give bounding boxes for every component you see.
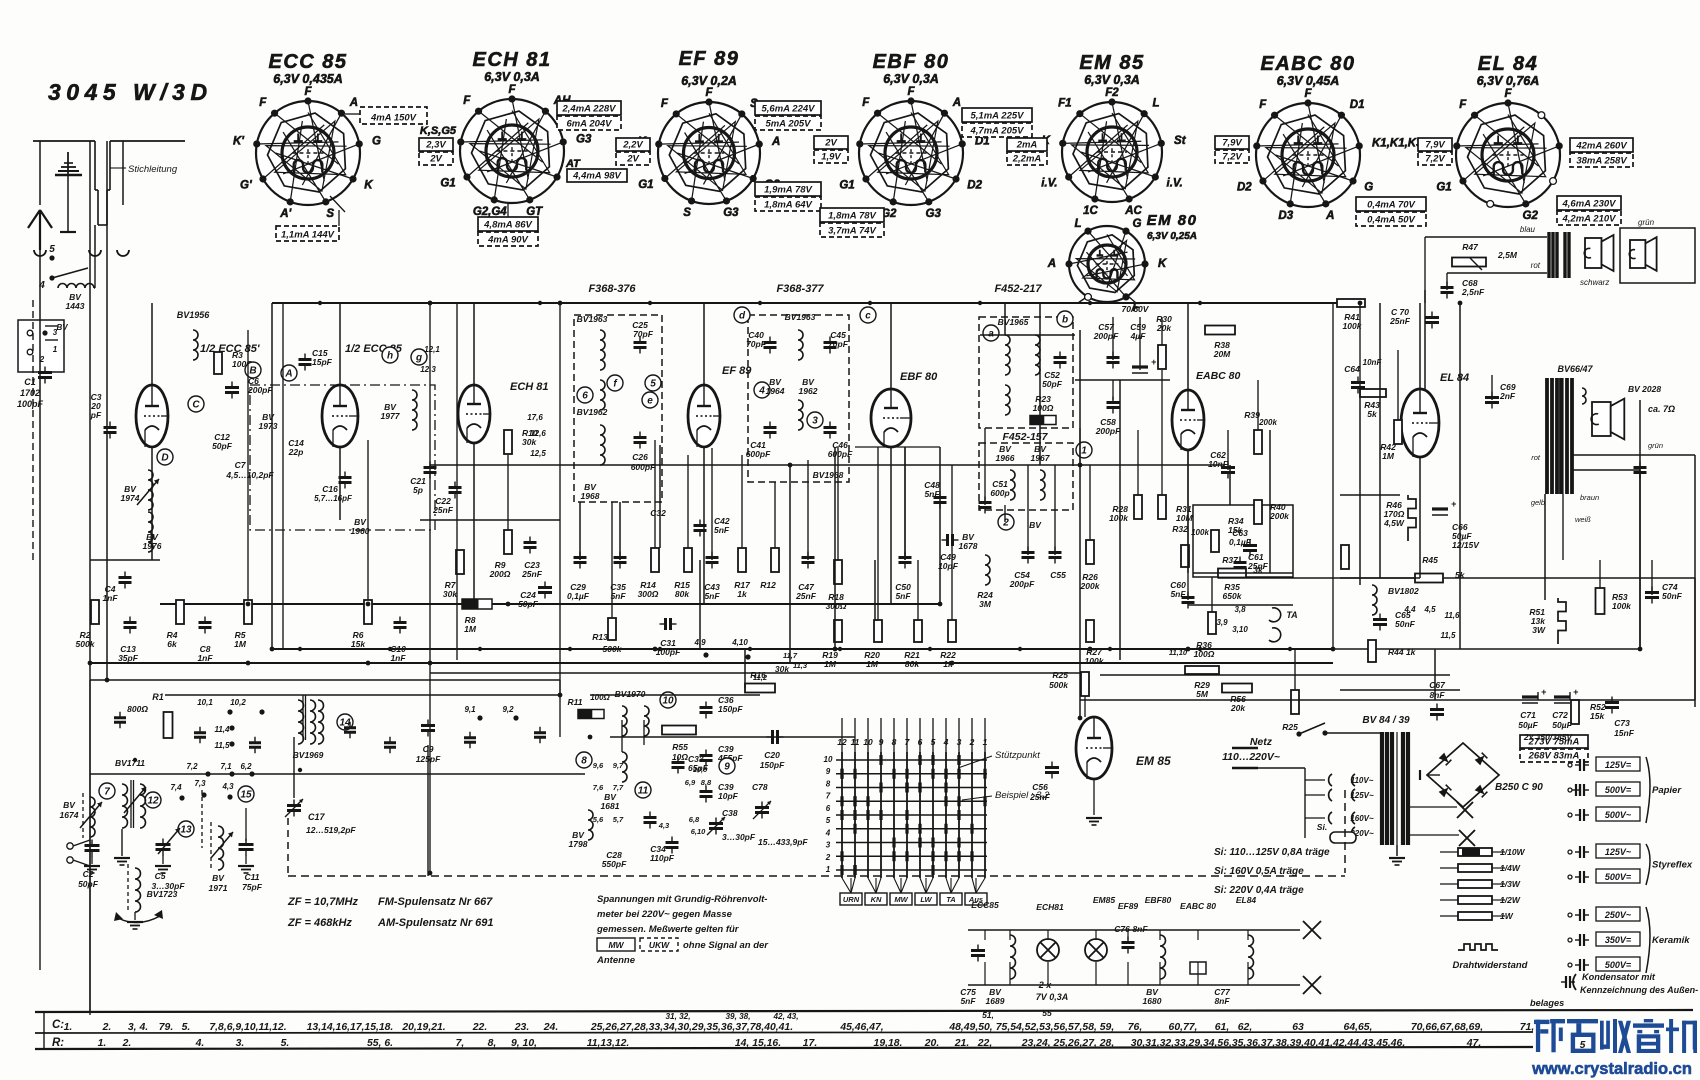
svg-text:11,13,12.: 11,13,12. [587, 1038, 630, 1049]
svg-text:EBF 80: EBF 80 [900, 371, 938, 383]
svg-text:5nF: 5nF [1170, 589, 1186, 599]
svg-text:AT: AT [565, 158, 581, 170]
svg-text:5nF: 5nF [960, 996, 976, 1006]
svg-text:50nF: 50nF [1395, 619, 1416, 629]
svg-text:4,6mA 230V: 4,6mA 230V [1562, 199, 1617, 210]
svg-text:9: 9 [826, 767, 831, 776]
svg-text:G1: G1 [440, 178, 455, 190]
svg-text:i.V.: i.V. [1041, 178, 1057, 190]
svg-text:125V~: 125V~ [1605, 847, 1632, 857]
svg-text:G1: G1 [1436, 182, 1451, 194]
svg-text:Kondensator mit: Kondensator mit [1582, 972, 1656, 982]
svg-text:BV1963: BV1963 [785, 312, 816, 322]
svg-text:2x 350/385V: 2x 350/385V [1523, 732, 1574, 742]
svg-text:F: F [1304, 88, 1312, 100]
svg-text:1964: 1964 [766, 386, 785, 396]
svg-text:BV1963: BV1963 [577, 314, 608, 324]
svg-text:A: A [771, 136, 780, 148]
svg-text:8: 8 [826, 779, 831, 788]
svg-text:R13: R13 [592, 632, 608, 642]
svg-text:70pF: 70pF [633, 329, 654, 339]
svg-text:Si: 160V 0,5A träge: Si: 160V 0,5A träge [1214, 866, 1304, 877]
svg-text:FM-Spulensatz Nr 667: FM-Spulensatz Nr 667 [378, 896, 493, 908]
svg-text:6,3V 0,2A: 6,3V 0,2A [681, 74, 737, 88]
svg-text:2.: 2. [102, 1022, 112, 1033]
svg-text:31, 32,: 31, 32, [665, 1012, 690, 1021]
svg-text:1680: 1680 [1143, 996, 1162, 1006]
svg-text:4,8mA 86V: 4,8mA 86V [483, 220, 532, 231]
svg-text:50µF: 50µF [1552, 720, 1572, 730]
svg-text:meter bei 220V~ gegen Masse: meter bei 220V~ gegen Masse [597, 909, 733, 920]
svg-text:AC: AC [1124, 205, 1142, 217]
svg-text:15k: 15k [1590, 711, 1605, 721]
svg-text:200k: 200k [1269, 511, 1290, 521]
svg-text:5: 5 [826, 816, 831, 825]
svg-text:22.: 22. [472, 1022, 487, 1033]
svg-text:200k: 200k [1080, 581, 1101, 591]
svg-text:7,8,6,9,10,11,12.: 7,8,6,9,10,11,12. [209, 1022, 286, 1033]
svg-text:ZF = 468kHz: ZF = 468kHz [287, 917, 352, 929]
svg-text:3045 W/3D: 3045 W/3D [48, 79, 213, 105]
svg-text:5nF: 5nF [610, 591, 626, 601]
svg-text:10M: 10M [1176, 513, 1193, 523]
svg-text:19,18.: 19,18. [874, 1038, 903, 1049]
svg-text:22,: 22, [977, 1038, 992, 1049]
svg-text:+: + [1541, 687, 1547, 697]
svg-text:11,6: 11,6 [1445, 611, 1461, 620]
svg-text:11,4: 11,4 [215, 725, 231, 734]
svg-text:C55: C55 [1050, 570, 1066, 580]
svg-text:0,4mA 70V: 0,4mA 70V [1367, 200, 1415, 211]
svg-text:K1,K1,K3: K1,K1,K3 [1372, 138, 1423, 150]
svg-text:F368-376: F368-376 [588, 283, 636, 295]
svg-text:6: 6 [582, 391, 588, 402]
svg-text:4mA 150V: 4mA 150V [370, 113, 417, 124]
svg-text:EF 89: EF 89 [722, 365, 752, 377]
svg-text:G: G [1133, 218, 1142, 230]
svg-text:URN: URN [843, 895, 860, 904]
svg-text:C32: C32 [650, 508, 666, 518]
svg-text:1689: 1689 [986, 996, 1005, 1006]
svg-text:9,7: 9,7 [613, 761, 624, 770]
svg-text:Keramik: Keramik [1652, 935, 1690, 946]
svg-text:1674: 1674 [60, 810, 79, 820]
svg-text:3,8: 3,8 [1234, 605, 1246, 614]
svg-text:15: 15 [240, 790, 252, 801]
svg-text:79.: 79. [159, 1022, 173, 1033]
svg-text:800Ω: 800Ω [127, 704, 148, 714]
svg-text:F368-377: F368-377 [776, 283, 824, 295]
svg-text:gelb: gelb [1531, 498, 1545, 507]
svg-text:1973: 1973 [259, 421, 278, 431]
svg-text:25,26,27,28,33,34,30,29,35,36,: 25,26,27,28,33,34,30,29,35,36,37,78,40,4… [590, 1022, 793, 1033]
svg-text:EF89: EF89 [1118, 901, 1139, 911]
svg-text:550pF: 550pF [602, 859, 627, 869]
svg-text:11: 11 [638, 786, 649, 797]
svg-text:3: 3 [812, 416, 818, 427]
svg-text:Stichleitung: Stichleitung [128, 164, 178, 175]
svg-text:110pF: 110pF [650, 853, 675, 863]
svg-text:blau: blau [1520, 225, 1536, 234]
svg-text:BV1711: BV1711 [115, 758, 145, 768]
svg-text:BV: BV [1029, 520, 1042, 530]
svg-text:7,2: 7,2 [186, 762, 198, 771]
svg-text:F1: F1 [1058, 98, 1071, 110]
svg-text:5nF: 5nF [704, 591, 720, 601]
svg-text:60,77,: 60,77, [1169, 1022, 1198, 1033]
svg-text:ECH 81: ECH 81 [510, 381, 549, 393]
svg-text:ECH81: ECH81 [1036, 902, 1064, 912]
svg-text:20k: 20k [1156, 323, 1172, 333]
svg-text:7: 7 [826, 792, 831, 801]
svg-text:EL 84: EL 84 [1440, 372, 1469, 384]
svg-text:0,4mA 50V: 0,4mA 50V [1367, 215, 1415, 226]
svg-text:EM 85: EM 85 [1079, 52, 1144, 74]
svg-text:6,9: 6,9 [685, 778, 696, 787]
svg-text:30k: 30k [522, 437, 537, 447]
svg-text:C:: C: [52, 1019, 64, 1031]
svg-text:F452-157: F452-157 [1003, 431, 1049, 443]
svg-text:F: F [1459, 99, 1467, 111]
svg-text:1nF: 1nF [197, 653, 213, 663]
svg-text:weiß: weiß [1575, 515, 1591, 524]
svg-text:1966: 1966 [996, 453, 1015, 463]
svg-text:2: 2 [1002, 518, 1009, 529]
svg-text:5nF: 5nF [895, 591, 911, 601]
svg-text:BV 2028: BV 2028 [1628, 384, 1661, 394]
svg-text:3,7mA 74V: 3,7mA 74V [828, 226, 876, 237]
svg-text:500V=: 500V= [1605, 960, 1632, 970]
svg-text:C56: C56 [1032, 782, 1048, 792]
svg-text:10Ω: 10Ω [672, 752, 688, 762]
svg-text:8,8: 8,8 [701, 778, 712, 787]
svg-text:10,1: 10,1 [197, 698, 213, 707]
svg-text:200pF: 200pF [1095, 426, 1121, 436]
svg-text:rot: rot [1531, 261, 1541, 270]
svg-text:1,8mA 78V: 1,8mA 78V [828, 211, 876, 222]
svg-text:11,10: 11,10 [1169, 648, 1188, 657]
svg-text:4µF: 4µF [1130, 331, 1147, 341]
svg-text:BV 84 / 39: BV 84 / 39 [1362, 715, 1410, 726]
svg-text:TA: TA [1286, 610, 1297, 620]
svg-text:75pF: 75pF [242, 882, 263, 892]
svg-text:125V=: 125V= [1605, 760, 1632, 770]
svg-text:A: A [1325, 210, 1334, 222]
svg-text:Stützpunkt: Stützpunkt [995, 750, 1040, 761]
svg-text:50pF: 50pF [518, 599, 539, 609]
svg-text:1M: 1M [464, 624, 477, 634]
svg-text:G3: G3 [926, 208, 942, 220]
svg-text:D3: D3 [1278, 210, 1293, 222]
svg-text:35pF: 35pF [118, 653, 139, 663]
svg-text:25nF: 25nF [795, 591, 817, 601]
svg-text:F452-217: F452-217 [994, 283, 1042, 295]
svg-text:10: 10 [662, 696, 674, 707]
svg-text:C73: C73 [1614, 718, 1630, 728]
svg-text:C2: C2 [83, 869, 94, 879]
svg-text:600p: 600p [990, 488, 1009, 498]
svg-text:7,3: 7,3 [194, 779, 206, 788]
svg-text:1798: 1798 [569, 839, 588, 849]
svg-text:5.: 5. [281, 1038, 290, 1049]
svg-text:7,: 7, [456, 1038, 465, 1049]
svg-text:9,2: 9,2 [502, 705, 514, 714]
svg-text:1: 1 [53, 345, 58, 354]
svg-text:25nF: 25nF [1389, 316, 1411, 326]
svg-text:e: e [647, 396, 653, 407]
svg-text:C17: C17 [308, 812, 326, 822]
svg-text:50µF: 50µF [1518, 720, 1538, 730]
svg-text:EM85: EM85 [1093, 895, 1115, 905]
svg-text:22p: 22p [288, 447, 304, 457]
svg-text:70,66,67,68,69,: 70,66,67,68,69, [1411, 1022, 1483, 1033]
svg-text:250V~: 250V~ [1604, 910, 1632, 920]
svg-text:6,2: 6,2 [240, 762, 252, 771]
svg-text:110V~: 110V~ [1351, 776, 1374, 785]
svg-text:80k: 80k [905, 659, 920, 669]
svg-text:3,9: 3,9 [1216, 618, 1228, 627]
svg-text:F: F [304, 86, 312, 98]
svg-text:2,3V: 2,3V [425, 140, 446, 151]
svg-text:600pF: 600pF [631, 462, 656, 472]
svg-text:21.: 21. [954, 1038, 969, 1049]
svg-text:200pF: 200pF [1009, 579, 1035, 589]
svg-text:4,4: 4,4 [1403, 605, 1416, 614]
svg-text:R25: R25 [1282, 722, 1298, 732]
svg-text:15nF: 15nF [1614, 728, 1635, 738]
svg-text:D2: D2 [967, 180, 982, 192]
svg-text:1: 1 [826, 865, 831, 874]
svg-text:5nF: 5nF [714, 525, 730, 535]
svg-text:100k: 100k [1085, 656, 1105, 666]
svg-text:R37: R37 [1222, 555, 1239, 565]
svg-text:30k: 30k [443, 589, 458, 599]
svg-text:3W: 3W [1532, 625, 1546, 635]
svg-text:4,10: 4,10 [731, 638, 748, 647]
svg-text:6,3V 0,435A: 6,3V 0,435A [273, 72, 343, 86]
svg-text:R45: R45 [1422, 555, 1438, 565]
svg-text:C38: C38 [722, 808, 738, 818]
svg-text:BV66/47: BV66/47 [1557, 364, 1593, 374]
svg-text:C20: C20 [764, 750, 780, 760]
svg-text:Si.: Si. [1317, 822, 1327, 832]
svg-text:G3: G3 [723, 207, 739, 219]
svg-text:b: b [1062, 315, 1068, 326]
svg-text:C: C [192, 400, 200, 411]
svg-text:G1: G1 [638, 179, 653, 191]
svg-text:6,3V 0,3A: 6,3V 0,3A [1084, 73, 1140, 87]
svg-text:2V: 2V [824, 138, 837, 149]
svg-text:24.: 24. [543, 1022, 558, 1033]
svg-text:9: 9 [724, 762, 730, 773]
svg-text:+: + [1451, 499, 1457, 509]
svg-text:15k: 15k [351, 639, 366, 649]
svg-text:150pF: 150pF [760, 760, 785, 770]
svg-text:EL84: EL84 [1236, 895, 1257, 905]
svg-text:0,1µF: 0,1µF [1229, 537, 1252, 547]
svg-text:F: F [463, 95, 471, 107]
svg-text:K: K [364, 180, 373, 192]
svg-text:1,8mA 64V: 1,8mA 64V [764, 200, 812, 211]
svg-text:110…220V~: 110…220V~ [1222, 751, 1280, 763]
svg-text:13: 13 [180, 825, 192, 836]
svg-text:23.: 23. [514, 1022, 529, 1033]
svg-text:C7: C7 [235, 460, 247, 470]
svg-text:B250 C 90: B250 C 90 [1495, 782, 1543, 793]
svg-text:d: d [739, 311, 746, 322]
svg-text:5,7…16pF: 5,7…16pF [314, 494, 353, 503]
svg-text:EF 89: EF 89 [679, 48, 740, 70]
svg-text:600pF: 600pF [828, 449, 853, 459]
svg-text:BV: BV [56, 323, 68, 332]
svg-text:55, 6.: 55, 6. [367, 1038, 393, 1049]
svg-text:13,14,16,17,15,18.: 13,14,16,17,15,18. [307, 1022, 394, 1033]
svg-text:6k: 6k [167, 639, 178, 649]
svg-text:6,10: 6,10 [691, 827, 706, 836]
svg-text:5: 5 [650, 379, 656, 390]
svg-text:2,2V: 2,2V [622, 140, 643, 151]
svg-text:3: 3 [826, 841, 831, 850]
svg-text:500k: 500k [603, 644, 623, 654]
svg-text:25nF: 25nF [1029, 792, 1051, 802]
svg-text:11,3: 11,3 [793, 661, 808, 670]
svg-text:Si: 220V 0,4A träge: Si: 220V 0,4A träge [1214, 885, 1304, 896]
svg-text:B: B [249, 366, 256, 377]
svg-text:10,9: 10,9 [693, 765, 708, 774]
svg-text:A': A' [279, 208, 292, 220]
svg-text:5,6mA 224V: 5,6mA 224V [762, 104, 816, 115]
svg-text:7,9V: 7,9V [1425, 140, 1445, 151]
svg-text:4: 4 [38, 280, 45, 291]
svg-text:BV1962: BV1962 [577, 407, 608, 417]
svg-text:F: F [508, 84, 516, 96]
svg-text:200pF: 200pF [1093, 331, 1119, 341]
svg-text:R11: R11 [568, 697, 583, 707]
svg-text:G: G [1364, 182, 1373, 194]
svg-text:10pF: 10pF [938, 561, 959, 571]
svg-text:A: A [952, 97, 961, 109]
svg-text:1968: 1968 [581, 491, 600, 501]
svg-text:6,3V 0,45A: 6,3V 0,45A [1277, 74, 1340, 88]
svg-text:10nF: 10nF [1208, 459, 1229, 469]
svg-text:pF: pF [90, 410, 102, 420]
svg-text:1M: 1M [1382, 451, 1395, 461]
svg-text:BV1802: BV1802 [1388, 586, 1419, 596]
svg-text:75,54,52,53,56,57,58, 59,: 75,54,52,53,56,57,58, 59, [996, 1022, 1114, 1033]
svg-text:500k: 500k [1049, 680, 1069, 690]
svg-text:2,5M: 2,5M [1497, 250, 1518, 260]
svg-text:2.: 2. [122, 1038, 132, 1049]
svg-text:80k: 80k [675, 589, 690, 599]
svg-text:7,2V: 7,2V [1425, 154, 1445, 165]
svg-text:K: K [1158, 258, 1167, 270]
svg-text:20.: 20. [924, 1038, 939, 1049]
svg-text:1M: 1M [824, 659, 837, 669]
svg-text:R32: R32 [1172, 524, 1188, 534]
svg-text:5M: 5M [1196, 689, 1209, 699]
svg-text:F: F [705, 87, 713, 99]
svg-text:gemessen. Meßwerte gelten für: gemessen. Meßwerte gelten für [596, 924, 740, 935]
svg-text:8nF: 8nF [1214, 996, 1230, 1006]
svg-text:61,: 61, [1215, 1022, 1229, 1033]
svg-text:3,10: 3,10 [1232, 625, 1248, 634]
svg-text:1,9mA 78V: 1,9mA 78V [764, 185, 812, 196]
svg-text:5p: 5p [413, 485, 423, 495]
svg-text:6,8: 6,8 [689, 815, 700, 824]
svg-text:5nF: 5nF [924, 489, 940, 499]
svg-text:2V: 2V [626, 154, 639, 165]
svg-text:1.: 1. [64, 1022, 73, 1033]
svg-text:6,3V 0,25A: 6,3V 0,25A [1147, 231, 1197, 242]
svg-text:10: 10 [824, 755, 833, 764]
svg-text:D1: D1 [1350, 99, 1365, 111]
svg-text:G': G' [240, 180, 253, 192]
svg-text:14, 15,16.: 14, 15,16. [735, 1038, 781, 1049]
svg-text:KN: KN [871, 895, 882, 904]
svg-text:7,4: 7,4 [170, 783, 182, 792]
svg-text:10pF: 10pF [718, 791, 739, 801]
svg-text:EABC 80: EABC 80 [1196, 370, 1241, 382]
svg-text:71,: 71, [1520, 1022, 1534, 1033]
svg-text:G2: G2 [1523, 210, 1539, 222]
svg-text:+: + [1573, 687, 1579, 697]
svg-text:Antenne: Antenne [596, 955, 636, 966]
svg-text:20k: 20k [1230, 703, 1246, 713]
svg-text:50pF: 50pF [1042, 379, 1063, 389]
svg-text:500V=: 500V= [1605, 872, 1632, 882]
svg-text:G3: G3 [576, 134, 592, 146]
svg-text:7,2V: 7,2V [1222, 152, 1242, 163]
svg-text:G: G [372, 136, 381, 148]
svg-text:C16: C16 [322, 484, 338, 494]
svg-text:5k: 5k [1367, 409, 1378, 419]
svg-text:1C: 1C [1083, 205, 1098, 217]
svg-text:15pF: 15pF [312, 357, 333, 367]
svg-text:650k: 650k [1223, 591, 1243, 601]
svg-text:3…30pF: 3…30pF [722, 832, 756, 842]
svg-text:MW: MW [608, 940, 624, 950]
svg-text:100k: 100k [1612, 601, 1632, 611]
svg-text:9,6: 9,6 [593, 761, 604, 770]
svg-text:i.V.: i.V. [1167, 178, 1183, 190]
svg-text:7V 0,3A: 7V 0,3A [1036, 992, 1069, 1002]
svg-text:1,1mA 144V: 1,1mA 144V [281, 230, 335, 241]
svg-text:50pF: 50pF [78, 879, 99, 889]
svg-text:600pF: 600pF [746, 449, 771, 459]
svg-text:D2: D2 [1237, 182, 1252, 194]
svg-text:R1: R1 [152, 692, 164, 702]
svg-text:A: A [1047, 258, 1056, 270]
svg-text:8,: 8, [488, 1038, 497, 1049]
svg-text:Si: 110…125V 0,8A träge: Si: 110…125V 0,8A träge [1214, 847, 1330, 858]
svg-text:70pF: 70pF [828, 339, 849, 349]
svg-text:F: F [661, 98, 669, 110]
svg-text:8nF: 8nF [1132, 924, 1148, 934]
svg-text:51,: 51, [982, 1010, 994, 1020]
svg-text:C1: C1 [24, 377, 36, 387]
svg-text:42, 43,: 42, 43, [772, 1012, 798, 1021]
svg-text:7,6: 7,6 [593, 783, 604, 792]
svg-text:1681: 1681 [601, 801, 620, 811]
svg-text:+: + [1151, 357, 1157, 367]
svg-text:500k: 500k [76, 639, 96, 649]
svg-text:200pF: 200pF [247, 385, 273, 395]
svg-text:9, 10,: 9, 10, [511, 1038, 537, 1049]
svg-text:Kennzeichnung des Außen-: Kennzeichnung des Außen- [1580, 985, 1698, 995]
svg-text:63: 63 [1292, 1022, 1304, 1033]
svg-text:BV: BV [63, 800, 76, 810]
svg-text:300Ω: 300Ω [638, 589, 659, 599]
